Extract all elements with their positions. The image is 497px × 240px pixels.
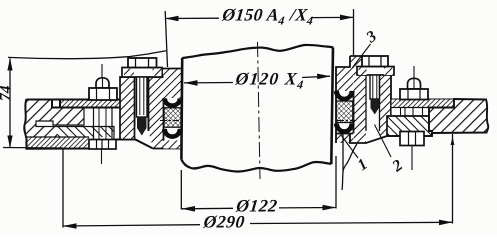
left gland below packing: [164, 141, 182, 149]
dim 150 arrow right: [340, 15, 354, 21]
dim 122 extension right: [335, 156, 337, 209]
right gland bolt washer: [357, 67, 394, 76]
dim 290 arrow right: [439, 220, 453, 226]
right gland below packing: [336, 134, 353, 144]
dim 74 extension top: [8, 51, 166, 59]
left gland bolt washer: [122, 68, 162, 78]
dim 74 arrow up: [7, 58, 12, 71]
svg-text:Ø150 A4 /X4: Ø150 A4 /X4: [220, 5, 315, 28]
left packing center tick: [160, 120, 179, 122]
right stud nut: [400, 89, 428, 100]
dim 74 arrow down: [7, 136, 12, 149]
left gland bolt shank: [137, 77, 148, 117]
dim 150 extension right: [353, 9, 355, 56]
dim 122 arrow left: [182, 206, 196, 212]
cylinder right edge: [331, 48, 333, 165]
right packing upper seal ring: [336, 91, 353, 99]
right gland outline: [336, 56, 391, 143]
right gland lip: [350, 56, 362, 75]
dim 290 arrow up small: [451, 137, 455, 146]
dim 122 arrow right: [323, 205, 337, 211]
dim 74 line: [9, 59, 11, 148]
right stud cap nut: [408, 78, 421, 89]
left flange stud hole and shank lines: [93, 108, 95, 140]
right gland bolt hole sides: [365, 75, 367, 131]
dim 122 extension left: [180, 170, 182, 210]
left flange body: [26, 100, 114, 149]
dim 290 extension left: [62, 149, 64, 228]
dim 150 extension left: [165, 11, 167, 67]
right flange gasket strip: [391, 99, 454, 108]
left stud cap nut: [96, 78, 109, 88]
dim 290 arrow left: [63, 223, 77, 229]
left gland left wall: [120, 77, 135, 140]
right gland right wall: [380, 75, 392, 136]
right packing rubber block: [336, 101, 353, 123]
dim 120 arrow right: [317, 74, 331, 80]
label 3 leader: [353, 44, 371, 68]
right flange lower band: [387, 116, 432, 136]
cylinder top edge: [182, 45, 333, 58]
dim 150 line: [165, 17, 219, 19]
dim 120 line left: [184, 82, 233, 84]
left stud lower axis: [101, 149, 103, 164]
svg-text:Ø290: Ø290: [202, 212, 246, 232]
left packing upper seal ring: [164, 99, 181, 106]
left stud axis: [101, 64, 103, 78]
right gland bolt threaded tip: [371, 99, 380, 108]
right lower nut: [400, 132, 424, 146]
left packing rubber block: [164, 108, 181, 127]
right packing lower seal ring: [336, 124, 353, 132]
right gland bolt shank: [370, 75, 380, 99]
dim 120 line right: [302, 76, 330, 77]
left stud nut: [89, 88, 117, 100]
label 2 leader: [375, 125, 392, 158]
left flange outline: [24, 99, 153, 149]
right packing center tick: [337, 120, 356, 122]
dim 290 extension right: [452, 134, 454, 224]
left lower nut: [89, 140, 116, 150]
left flange gasket strip: [60, 100, 121, 108]
right gland top lobe: [336, 67, 353, 91]
cylinder center line: [258, 42, 261, 179]
left packing lower seal ring: [164, 129, 181, 137]
label 1 leader: [341, 135, 358, 158]
right flange bottom edge: [387, 133, 432, 136]
left gland body: [149, 77, 164, 149]
svg-text:Ø120 X4: Ø120 X4: [233, 69, 306, 92]
left gland bolt head: [128, 58, 157, 68]
right pipe break line: [342, 144, 357, 190]
dim 122 line: [182, 207, 234, 210]
right stud lower axis: [411, 146, 413, 171]
svg-text:74: 74: [0, 85, 15, 101]
right gland bolt head: [362, 56, 388, 67]
left gland bolt hole sides: [134, 77, 136, 126]
cylinder bottom edge: [181, 160, 331, 172]
dim 74 extension bottom: [3, 147, 63, 150]
right stud axis: [413, 66, 415, 78]
dim 150 arrow left: [165, 16, 179, 22]
right flange nut row: [391, 108, 429, 117]
dim 290 line: [63, 225, 200, 226]
right flange main block: [429, 99, 488, 133]
left gland bolt threaded tip: [137, 117, 147, 128]
cylinder left edge: [180, 58, 183, 160]
dim 120 arrow left: [184, 80, 198, 86]
right pipe stub edge: [342, 134, 344, 172]
right gland left wall: [354, 67, 367, 143]
